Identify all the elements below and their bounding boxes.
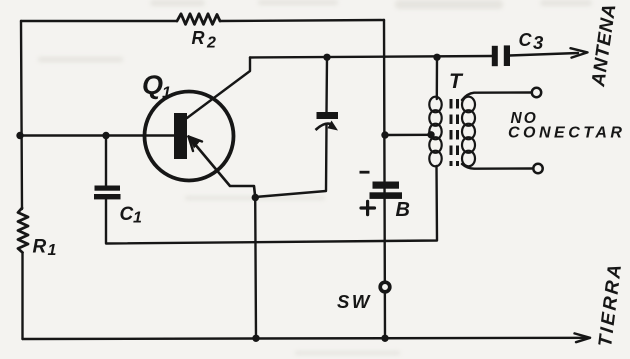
svg-text:R: R	[192, 28, 205, 48]
svg-text:1: 1	[162, 85, 171, 102]
svg-text:Q: Q	[142, 70, 163, 100]
svg-text:1: 1	[48, 242, 57, 259]
svg-text:R: R	[33, 237, 47, 258]
svg-text:C: C	[120, 204, 134, 225]
svg-text:SW: SW	[337, 291, 372, 312]
svg-text:T: T	[449, 70, 464, 93]
svg-text:CONECTAR: CONECTAR	[508, 125, 625, 142]
svg-text:1: 1	[133, 210, 142, 227]
svg-text:B: B	[396, 199, 410, 221]
svg-text:3: 3	[533, 32, 544, 53]
svg-text:2: 2	[206, 35, 216, 52]
svg-text:C: C	[519, 30, 533, 50]
